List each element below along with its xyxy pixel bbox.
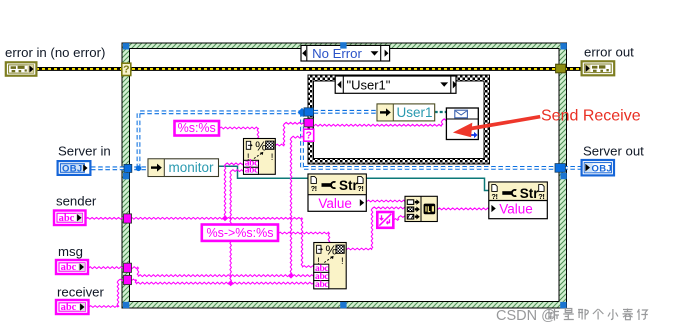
outer case structure border (green hatch) xyxy=(122,43,567,308)
wire: teal dashed User1 node to send VI xyxy=(435,111,447,113)
tunnel: Server in (blue) on outer left border xyxy=(124,164,132,172)
terminal: receiver string control xyxy=(56,300,89,314)
node: ring constant User1 with arrow xyxy=(377,104,435,121)
svg-text:?!: ?! xyxy=(538,192,544,201)
selection handles (blue squares) of outer structure xyxy=(123,43,129,49)
tunnel: string (magenta) on inner left border xyxy=(304,119,314,127)
wire: error (yellow/black dashed) from error in to error out xyxy=(37,67,581,71)
wire junction: server split dot xyxy=(136,166,142,172)
svg-text:%s:%s: %s:%s xyxy=(178,121,216,135)
tunnel: Server out (blue) on outer right border xyxy=(555,164,565,173)
svg-text:Value: Value xyxy=(499,202,533,217)
case selector "No Error" xyxy=(301,45,390,61)
terminal: msg string control xyxy=(56,260,88,274)
svg-text:abc: abc xyxy=(245,166,258,176)
wire: msg string xyxy=(88,136,314,278)
annotation: red arrow xyxy=(453,115,541,137)
wire: %s->%s:%s format string into format node 2 xyxy=(278,232,330,242)
wire: Value property output to bundle input 1 xyxy=(366,200,405,202)
tunnel: sender (magenta) on outer left border xyxy=(124,214,132,223)
inner case structure border (checkered) xyxy=(308,75,490,164)
wire: format node 1 output into inner structure xyxy=(275,122,308,146)
svg-text:No Error: No Error xyxy=(312,46,362,61)
terminal: error out cluster xyxy=(582,61,615,75)
svg-text:User1: User1 xyxy=(397,105,433,120)
case selector terminal "?" on outer left border xyxy=(122,63,131,75)
string constant %s:%s xyxy=(175,121,220,136)
wire: bundle output to Value write input xyxy=(437,208,489,210)
svg-text:abc: abc xyxy=(59,213,75,224)
sub-VI: monitor xyxy=(148,159,219,177)
terminal: Server out OBJ refnum xyxy=(582,160,614,175)
svg-text:abc: abc xyxy=(61,302,77,313)
svg-text:receiver: receiver xyxy=(57,285,105,300)
tunnel: receiver (magenta) on outer left border xyxy=(124,275,132,284)
property node write (Str / Value) xyxy=(489,182,548,219)
wire: magenta inside inner structure to send VI xyxy=(314,119,447,126)
wire: receiver string xyxy=(89,170,315,308)
svg-text:Value: Value xyxy=(318,196,352,211)
svg-text:error out: error out xyxy=(584,45,634,60)
svg-text:%s->%s:%s: %s->%s:%s xyxy=(206,226,273,240)
svg-text:Str: Str xyxy=(520,186,540,201)
tunnel: Server (blue) on inner left border xyxy=(304,108,314,116)
svg-text:OBJ: OBJ xyxy=(62,163,82,174)
wire: trim node output to bundle input 3 xyxy=(393,216,405,221)
wire junction: server diamond xyxy=(298,108,307,117)
svg-text:monitor: monitor xyxy=(168,160,214,175)
svg-text:!: ! xyxy=(341,256,344,267)
wire: %s:%s format string into format node 1 xyxy=(219,127,259,139)
wire: blue inside inner structure to User1 node xyxy=(314,110,377,114)
function: Format Into String (f2) xyxy=(314,242,346,290)
case selector "User1" xyxy=(335,76,457,93)
terminal: sender string control xyxy=(54,211,86,226)
svg-text:?: ? xyxy=(305,130,311,142)
terminal: Server in OBJ refnum xyxy=(58,161,91,175)
terminal: error in cluster xyxy=(6,62,37,75)
svg-text:!: ! xyxy=(271,152,274,163)
svg-text:Send Receive: Send Receive xyxy=(541,108,641,125)
string constant %s->%s:%s xyxy=(202,225,278,241)
wire: monitor output (teal) to property nodes xyxy=(219,166,490,190)
svg-text:Str: Str xyxy=(339,178,359,193)
svg-text:Server out: Server out xyxy=(583,144,644,159)
wire: Server out run under inner structure xyxy=(302,112,581,168)
svg-text:Server in: Server in xyxy=(58,144,111,159)
wire: Server in to monitor and branches xyxy=(91,112,302,168)
svg-text:abc: abc xyxy=(315,280,328,290)
property node read (Str / Value) xyxy=(308,174,366,211)
svg-text:CSDN @: CSDN @ xyxy=(496,308,556,324)
tunnel: msg (magenta) on outer left border xyxy=(124,263,132,272)
svg-text:"User1": "User1" xyxy=(347,77,391,92)
svg-text:?!: ?! xyxy=(357,184,363,193)
svg-text:msg: msg xyxy=(58,244,83,259)
svg-text:?: ? xyxy=(123,64,129,76)
svg-text:error in (no error): error in (no error) xyxy=(5,45,105,60)
function: build text node xyxy=(405,196,437,221)
svg-text:?!: ?! xyxy=(311,184,317,193)
function: trim whitespace (magenta icon) xyxy=(377,212,393,228)
wire: format node 2 output to bundle input 2 xyxy=(346,207,405,250)
svg-text:OBJ: OBJ xyxy=(592,164,612,175)
svg-text:abc: abc xyxy=(61,262,77,273)
sub-VI: send/receive message (envelope icon) xyxy=(446,108,478,140)
svg-text:?!: ?! xyxy=(491,192,497,201)
wire: Server into inner structure tunnel xyxy=(302,110,308,114)
wire: sender string xyxy=(86,163,315,268)
svg-text:sender: sender xyxy=(56,194,97,209)
case selector terminal "?" on inner left border xyxy=(304,129,314,141)
function: Format Into String (f1) xyxy=(244,138,276,175)
tunnel: error out (olive) on outer right border xyxy=(556,64,566,73)
